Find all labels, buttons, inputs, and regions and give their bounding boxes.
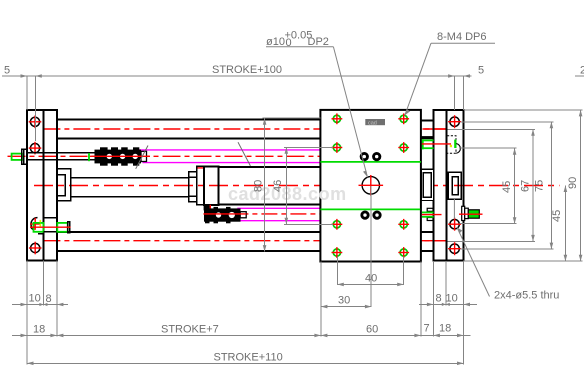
svg-text:8: 8	[436, 293, 442, 305]
cad badge on block	[365, 119, 385, 126]
svg-text:8-M4 DP6: 8-M4 DP6	[437, 31, 487, 43]
svg-text:STROKE+7: STROKE+7	[161, 324, 219, 336]
motor collar	[189, 172, 197, 202]
svg-text:7: 7	[424, 323, 430, 335]
svg-text:10: 10	[446, 293, 458, 305]
left lower screw red cross	[34, 218, 36, 230]
top rail upper edge	[57, 119, 320, 121]
left adjust screw green shank	[12, 154, 22, 160]
set screw in right plate top	[447, 136, 460, 154]
svg-text:cad: cad	[368, 120, 377, 126]
boss between block and right strip	[421, 169, 433, 200]
screw rod	[27, 153, 97, 160]
left plate hole top	[29, 116, 42, 129]
svg-text:45: 45	[501, 181, 513, 193]
svg-text:30: 30	[338, 295, 350, 307]
break slash at coupling	[136, 146, 148, 169]
dim 45 right upper	[501, 148, 516, 224]
main center axis	[34, 185, 560, 187]
top rail right segment edges	[421, 119, 433, 121]
bottom dim row 18 / STROKE+7 / 60 / 7 / 18	[12, 323, 471, 338]
lower-left screw end cluster at strip	[422, 208, 442, 220]
svg-text:DP2: DP2	[308, 36, 329, 48]
svg-text:2x4-ø5.5 thru: 2x4-ø5.5 thru	[494, 290, 559, 302]
right plate stud screw	[459, 206, 483, 220]
svg-text:46: 46	[272, 180, 284, 192]
svg-text:8: 8	[46, 293, 52, 305]
spacer pocket lines	[38, 218, 57, 234]
svg-text:ø10: ø10	[266, 36, 285, 48]
centerline ball screw	[8, 155, 321, 157]
bottom rail lower edge	[57, 250, 320, 252]
svg-text:10: 10	[29, 293, 41, 305]
svg-text:2: 2	[580, 65, 584, 77]
top arrows	[21, 74, 28, 78]
thin tube A	[71, 178, 189, 197]
right spacer block	[433, 110, 446, 261]
block hole B2	[398, 142, 409, 153]
break slash at screw mid	[238, 142, 250, 166]
yellow tick	[450, 145, 452, 147]
dim 30	[321, 295, 372, 309]
top rail lower edge	[57, 137, 320, 139]
green slide line lower	[320, 208, 420, 210]
left plate hole mid	[29, 142, 42, 155]
green tick at rod end	[88, 153, 90, 161]
dim 45 right lower	[551, 186, 567, 262]
leader 2x4 holes	[457, 227, 560, 301]
centerline top rail	[43, 128, 446, 130]
svg-text:STROKE+110: STROKE+110	[214, 352, 283, 364]
bottom rail centerline solid segment at right gap	[421, 240, 446, 242]
green slide line upper	[320, 161, 421, 163]
bottom extension lines	[27, 186, 464, 364]
lower screw centerline	[30, 226, 71, 228]
left adjust screw hex head	[22, 149, 27, 164]
collar step lines	[189, 177, 197, 196]
lower chain bracket tab	[204, 205, 210, 210]
dim 75	[534, 122, 554, 249]
block hole D1	[332, 247, 343, 258]
motor body	[204, 166, 219, 205]
left end plate	[27, 110, 43, 261]
dim 10-8 left	[12, 293, 68, 307]
ball screw magenta upper band	[138, 149, 320, 151]
dim 67	[520, 129, 535, 241]
block hole A2	[398, 113, 409, 124]
block hole D2	[398, 247, 409, 258]
nut pair upper	[360, 152, 382, 161]
centerline bottom rail	[43, 240, 446, 242]
bottom rail right segment edges	[421, 231, 433, 233]
green bushing right of spacer	[57, 223, 67, 232]
green angle lines	[422, 139, 434, 141]
dim 80 vertical	[253, 118, 321, 251]
nut pair lower	[360, 211, 381, 220]
right plate hole top	[448, 115, 461, 128]
svg-text:STROKE+100: STROKE+100	[212, 64, 282, 76]
svg-text:67: 67	[520, 180, 532, 192]
dim 90	[567, 110, 582, 261]
label dia10 DP2	[266, 30, 368, 178]
right screw end cluster top: black bar	[421, 136, 434, 139]
svg-text:5: 5	[478, 65, 484, 77]
svg-text:80: 80	[253, 180, 265, 192]
svg-text:18: 18	[439, 323, 451, 335]
carriage block	[320, 110, 421, 262]
block hole A1	[332, 113, 343, 124]
coupling nut chain upper	[90, 147, 150, 165]
top dimension line	[2, 75, 472, 77]
bottom rail upper edge	[57, 231, 320, 233]
svg-text:cad2088.com: cad2088.com	[228, 184, 347, 204]
motor flange	[197, 166, 204, 205]
svg-text:5: 5	[4, 65, 10, 77]
block hole B1	[332, 142, 343, 153]
cylinder tube B	[219, 167, 321, 204]
block hole C1	[332, 219, 343, 230]
dim 46 vertical	[272, 147, 333, 224]
svg-text:90: 90	[567, 177, 579, 189]
svg-text:18: 18	[33, 324, 45, 336]
gray seg in right plate	[453, 199, 455, 219]
dim 40	[337, 273, 403, 287]
centerline lower shaft	[203, 213, 320, 215]
dim STROKE+110	[27, 352, 464, 366]
bearing boss on left spacer	[57, 169, 70, 201]
green bushing end cap	[68, 222, 70, 233]
right plate hole mid	[448, 218, 461, 231]
left plate hole bottom	[29, 242, 42, 255]
coupling nut chain lower	[204, 207, 246, 223]
left lower screw green washer	[34, 223, 44, 232]
label 8-M4 DP6	[405, 31, 495, 115]
dim 8-10 right	[419, 293, 477, 307]
right side horizontal extension lines	[448, 110, 583, 261]
red screw centerline top right	[422, 143, 451, 145]
rail centerline solid segment at right gap	[423, 128, 447, 130]
left spacer block	[43, 110, 57, 261]
svg-text:75: 75	[534, 180, 546, 192]
top extension lines	[26, 76, 28, 110]
lower shaft magenta band	[237, 207, 320, 209]
svg-text:45: 45	[551, 210, 563, 222]
svg-text:40: 40	[365, 273, 377, 285]
block hole C2	[398, 219, 409, 230]
right plate hole bottom	[448, 242, 461, 255]
left lower screw dome head	[31, 218, 38, 231]
center pin hole circle	[362, 177, 379, 194]
lower chain red tick	[209, 205, 211, 211]
svg-text:60: 60	[366, 324, 378, 336]
left lower screw yellow thread marks	[39, 220, 41, 228]
red tick on flange top	[198, 167, 204, 169]
right end plate	[446, 110, 463, 261]
bearing boss right plate	[448, 172, 461, 199]
